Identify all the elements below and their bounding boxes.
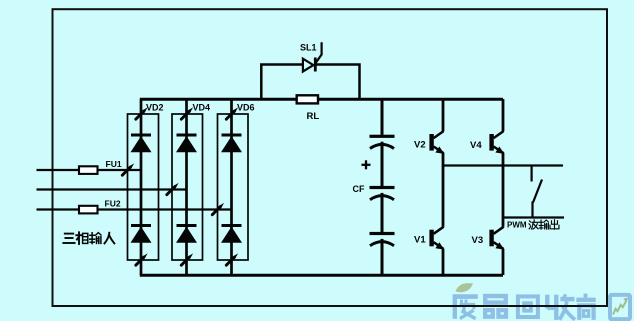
svg-text:FU1: FU1 [106,159,122,169]
svg-text:RL: RL [307,111,320,122]
svg-text:CF: CF [353,184,365,194]
svg-text:V2: V2 [414,140,426,151]
svg-text:PWM: PWM [507,221,527,230]
svg-text:V1: V1 [414,235,426,246]
svg-text:VD6: VD6 [237,103,255,113]
svg-text:VD2: VD2 [146,103,164,113]
svg-text:FU2: FU2 [105,199,121,209]
svg-text:VD4: VD4 [193,103,211,113]
svg-text:SL1: SL1 [300,43,317,53]
svg-text:V4: V4 [470,140,482,151]
svg-text:V3: V3 [472,235,484,246]
